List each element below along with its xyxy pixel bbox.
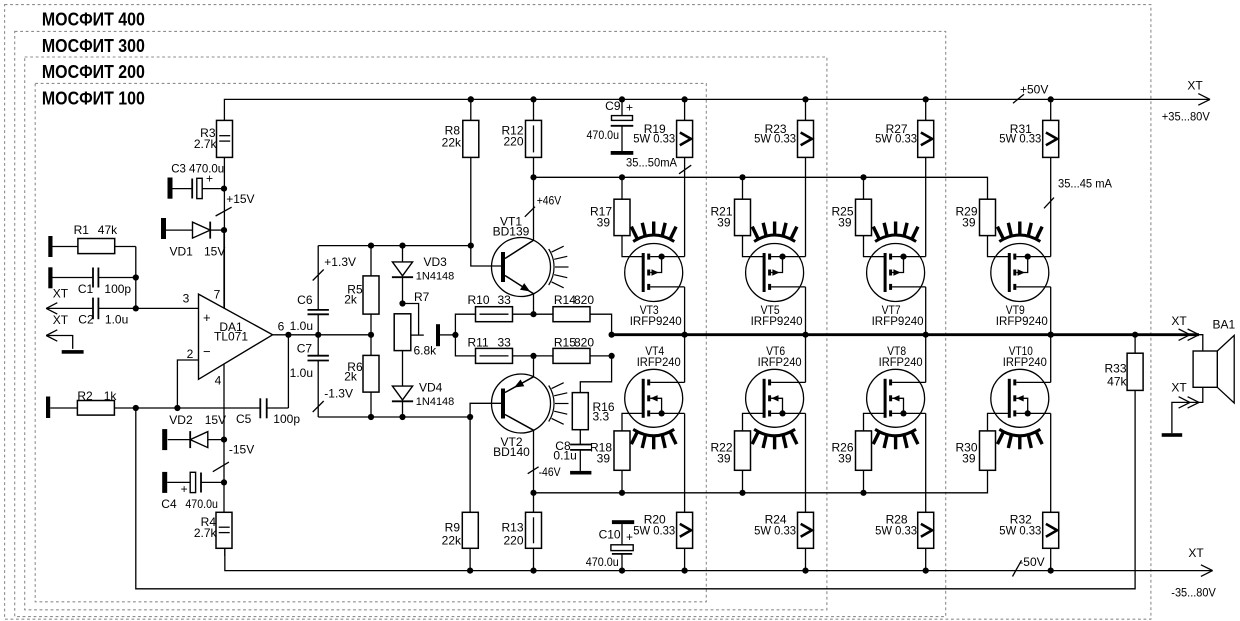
resistor R31 5W 0.33 (999, 99, 1058, 157)
resistor R18 39 (590, 431, 630, 470)
wire gate VT8 (864, 413, 886, 431)
svg-text:470.0u: 470.0u (587, 128, 620, 142)
junction C1 node (133, 274, 139, 280)
capacitor C9 (587, 99, 634, 151)
connector XT shield arrow (46, 330, 57, 341)
junction VT9 bus (1048, 332, 1054, 338)
zener VD1 (166, 222, 225, 259)
net +50V arrow XT (1198, 94, 1210, 106)
ground VD1 (161, 218, 166, 239)
junction R2 feedback node (133, 405, 139, 411)
junction R22 bus (739, 490, 745, 496)
diode VD4 (392, 381, 454, 418)
wire R27 to VT7 source (925, 157, 927, 256)
svg-text:1.0u: 1.0u (290, 366, 313, 380)
resistor R1 (53, 223, 136, 254)
resistor R15 (553, 335, 594, 363)
label XT shield (53, 313, 69, 327)
resistor R13 (501, 512, 541, 570)
svg-text:220: 220 (503, 534, 523, 548)
resistor R22 39 (710, 431, 750, 470)
slash 35...50mA (679, 165, 691, 174)
label -46V (539, 465, 561, 479)
svg-text:TL071: TL071 (214, 330, 248, 344)
svg-text:-50V: -50V (1019, 555, 1044, 569)
junction VT7 bus (923, 332, 929, 338)
MOSFET VT7 IRFP9240 (867, 222, 926, 329)
label -1.3V (324, 387, 353, 401)
wire pin2 (177, 360, 198, 408)
svg-text:470.0u: 470.0u (185, 497, 218, 511)
wire speaker return (1172, 387, 1203, 433)
resistor R2 (50, 389, 260, 415)
pin 6 (278, 320, 285, 334)
svg-text:C4: C4 (161, 497, 177, 511)
svg-text:+: + (626, 101, 633, 115)
svg-text:6.8k: 6.8k (414, 344, 438, 358)
transistor VT2 (492, 374, 569, 459)
resistor R26 39 (831, 431, 871, 470)
svg-text:VD1: VD1 (170, 245, 194, 259)
svg-text:39: 39 (962, 216, 976, 230)
slash 35...45mA (1044, 198, 1054, 209)
wire VD2 to C4 to R4 (223, 440, 225, 513)
junction R17 bus (619, 174, 625, 180)
svg-text:3: 3 (183, 292, 190, 306)
slash -46V (528, 467, 539, 474)
wire R11-R15 (513, 355, 554, 357)
svg-text:220: 220 (503, 135, 523, 149)
wire bus to R17 (621, 177, 623, 199)
svg-text:C1: C1 (78, 282, 94, 296)
resistor R4 (194, 512, 232, 548)
junction R15 node (609, 353, 615, 359)
label +35...80V (1162, 110, 1210, 124)
diode VD3 (392, 246, 454, 304)
wire zobel (580, 356, 611, 393)
capacitor C1 (53, 268, 136, 297)
junction drive node (452, 332, 458, 338)
svg-text:XT: XT (53, 287, 69, 301)
svg-text:C3 470.0u: C3 470.0u (171, 162, 224, 176)
wire VT10 drain to bus (1050, 335, 1052, 383)
wire VT8 drain to bus (925, 335, 927, 383)
resistor R19 5W 0.33 (633, 99, 692, 157)
junction R32 rail (1048, 568, 1054, 574)
svg-text:5W 0.33: 5W 0.33 (754, 524, 796, 538)
svg-text:100p: 100p (273, 412, 300, 426)
svg-text:C10: C10 (599, 528, 621, 542)
wire R10-R14 (513, 313, 554, 315)
svg-text:1k: 1k (104, 389, 118, 403)
svg-text:39: 39 (717, 452, 731, 466)
junction VT9 drain bus (1048, 332, 1054, 338)
junction C6-C7 node (315, 332, 321, 338)
svg-text:1N4148: 1N4148 (416, 396, 455, 408)
svg-text:6: 6 (278, 320, 285, 334)
svg-text:2k: 2k (344, 370, 358, 384)
wire VT3 drain to bus (684, 287, 686, 335)
resistor R17 39 (590, 199, 630, 235)
svg-text:VD3: VD3 (424, 255, 448, 269)
ground C9 (611, 151, 634, 155)
connector XT output (1179, 329, 1199, 340)
wire output bus (612, 333, 1199, 336)
capacitor C4 (161, 472, 224, 511)
connector pin C1 (48, 267, 52, 288)
svg-text:3.3: 3.3 (593, 409, 610, 423)
resistor R5 (344, 246, 379, 315)
resistor R29 39 (955, 199, 995, 235)
wire R5 to mid (370, 314, 372, 335)
wire R4 to -50V rail (224, 548, 226, 556)
label XT speaker return (1171, 381, 1187, 395)
svg-text:22k: 22k (442, 534, 462, 548)
svg-text:+46V: +46V (537, 194, 562, 208)
wire C6 to mid (317, 314, 319, 335)
connector pin drive (436, 324, 440, 346)
wire VT6 drain to bus (805, 335, 807, 383)
wire C5 to output (287, 335, 289, 408)
connector pin R2 (46, 397, 50, 419)
wire R17 to gate (622, 236, 643, 257)
svg-text:+: + (181, 482, 188, 496)
wire VT1 collector (533, 177, 535, 240)
pin 3 (183, 292, 190, 306)
wire VT2 collector (533, 430, 535, 512)
svg-text:2k: 2k (344, 292, 358, 306)
trimmer R7 (394, 290, 437, 358)
wire R26 to bus (863, 470, 865, 493)
slash -15V (213, 462, 229, 472)
svg-text:39: 39 (838, 452, 852, 466)
wire VT7 drain to bus (925, 287, 927, 335)
junction VD3 top (399, 243, 405, 249)
label -50V (1019, 555, 1044, 569)
resistor R23 5W 0.33 (754, 99, 813, 157)
wire VT9 drain to bus (1050, 287, 1052, 335)
junction VD1 node (221, 227, 227, 233)
net -50V arrow XT (1201, 565, 1213, 577)
resistor R3 (194, 120, 233, 157)
junction gate bus start (530, 490, 536, 496)
svg-text:IRFP240: IRFP240 (758, 355, 802, 369)
svg-text:+: + (203, 310, 211, 325)
svg-text:R11: R11 (468, 335, 489, 349)
wire R19 to VT3 source (684, 157, 686, 256)
net +50V slash (1013, 94, 1024, 103)
svg-text:XT: XT (1171, 314, 1187, 328)
wire R6 to -1.3V (370, 392, 372, 417)
wire VT4 source to R20 (684, 413, 686, 512)
capacitor C7 (290, 335, 329, 380)
wire VT2 base (470, 403, 503, 417)
wire feedback net (136, 390, 1135, 588)
svg-text:C7: C7 (297, 341, 313, 355)
label -35...80V (1171, 586, 1216, 600)
wire bus to R25 (863, 177, 865, 199)
junction R19 rail (682, 96, 688, 102)
svg-text:МОСФИТ 400: МОСФИТ 400 (42, 9, 145, 30)
svg-text:39: 39 (597, 452, 611, 466)
wire R7 to VD4 (402, 351, 404, 387)
svg-text:35...50mA: 35...50mA (626, 158, 677, 170)
wire R3 to +15V node (223, 157, 225, 308)
junction R13 rail (530, 568, 536, 574)
svg-text:XT: XT (1171, 381, 1187, 395)
svg-text:XT: XT (1188, 546, 1204, 560)
svg-text:+: + (626, 530, 633, 544)
wire gate VT4 (622, 413, 643, 431)
resistor R21 39 (710, 199, 750, 235)
frame МОСФИТ 300 (15, 31, 946, 616)
svg-text:BD140: BD140 (493, 445, 530, 459)
svg-text:R15: R15 (554, 335, 576, 349)
junction VD2 node (221, 437, 227, 443)
junction inverting node (174, 405, 180, 411)
svg-text:R7: R7 (414, 290, 430, 304)
svg-text:+35...80V: +35...80V (1162, 110, 1210, 124)
junction R21 bus (739, 174, 745, 180)
wire pin7 (223, 230, 225, 308)
junction C3 node (221, 186, 227, 192)
resistor R30 39 (955, 431, 995, 470)
wire bus to speaker (1199, 335, 1203, 351)
svg-text:C5: C5 (236, 412, 252, 426)
svg-text:IRFP240: IRFP240 (1003, 355, 1047, 369)
label XT -rail (1188, 546, 1204, 560)
resistor R12 (501, 99, 541, 157)
junction output node (285, 332, 291, 338)
svg-text:-15V: -15V (229, 443, 254, 457)
svg-text:5W 0.33: 5W 0.33 (999, 132, 1041, 146)
slash +15V (216, 207, 232, 216)
svg-text:R13: R13 (501, 521, 523, 535)
ground VD2 (162, 429, 167, 450)
label +46V (537, 194, 562, 208)
junction C10 rail (619, 568, 625, 574)
resistor R8 (442, 99, 479, 245)
transistor VT1 (492, 215, 569, 297)
wire pin4 (223, 364, 225, 439)
svg-text:2.7k: 2.7k (194, 526, 218, 540)
svg-text:820: 820 (574, 293, 594, 307)
connector XT speaker return (1179, 397, 1199, 408)
wire VT8 source to R28 (925, 413, 927, 512)
junction R5-R6 node (368, 332, 374, 338)
svg-text:C2: C2 (78, 312, 94, 326)
junction R23 rail (802, 96, 808, 102)
svg-text:XT: XT (1187, 79, 1203, 93)
wire pin to node (440, 334, 455, 336)
capacitor C6 (290, 293, 329, 333)
wire VT10 source to R32 (1050, 413, 1052, 512)
svg-text:7: 7 (214, 288, 221, 302)
wire R23 to VT5 source (805, 157, 807, 256)
junction VT3 bus (682, 332, 688, 338)
svg-text:+15V: +15V (226, 192, 254, 206)
svg-text:5W 0.33: 5W 0.33 (633, 524, 675, 538)
svg-text:1.0u: 1.0u (105, 312, 128, 326)
svg-text:+50V: +50V (1020, 83, 1048, 97)
svg-text:1.0u: 1.0u (290, 319, 313, 333)
MOSFET VT6 IRFP240 (746, 344, 806, 449)
svg-text:R1: R1 (74, 223, 90, 237)
wire gate bus -46V (534, 470, 988, 493)
junction bus start (609, 332, 615, 338)
svg-text:VD4: VD4 (419, 381, 443, 395)
svg-text:39: 39 (717, 216, 731, 230)
op-amp DA1 (199, 294, 273, 379)
junction bias bus start (530, 174, 536, 180)
junction R8 column rail (468, 96, 474, 102)
svg-text:−: − (203, 344, 211, 359)
pin 7 (214, 288, 221, 302)
svg-text:+1.3V: +1.3V (324, 255, 356, 269)
svg-text:R2: R2 (77, 389, 93, 403)
svg-text:-46V: -46V (539, 465, 561, 479)
resistor R10 (468, 293, 513, 322)
svg-text:33: 33 (498, 335, 512, 349)
junction R6 bottom (368, 414, 374, 420)
capacitor C5 (236, 398, 300, 426)
svg-text:VD2: VD2 (169, 413, 193, 427)
svg-text:IRFP9240: IRFP9240 (751, 314, 803, 328)
svg-text:39: 39 (962, 452, 976, 466)
svg-text:R33: R33 (1104, 362, 1126, 376)
junction R24 rail (802, 568, 808, 574)
svg-text:5W 0.33: 5W 0.33 (633, 132, 675, 146)
resistor R9 (442, 417, 479, 571)
junction VT5 bus (802, 332, 808, 338)
svg-text:820: 820 (574, 335, 594, 349)
net -50V rail wire (225, 548, 1213, 570)
capacitor C3 (171, 162, 224, 199)
zener VD2 (168, 413, 226, 448)
wire VT1 emitter (533, 294, 535, 315)
junction R31 rail (1048, 96, 1054, 102)
MOSFET VT4 IRFP240 (625, 344, 685, 449)
svg-text:2.7k: 2.7k (194, 137, 218, 151)
wire VT2 emitter (533, 356, 535, 377)
svg-text:100p: 100p (104, 282, 131, 296)
svg-text:5W 0.33: 5W 0.33 (875, 524, 917, 538)
wire R25 to gate (864, 236, 886, 257)
svg-text:IRFP240: IRFP240 (637, 355, 681, 369)
connector pin R1 (48, 236, 52, 257)
label +1.3V (324, 255, 356, 269)
label XT output (1171, 314, 1187, 328)
wire VT4 drain to bus (684, 335, 686, 383)
svg-text:35...45 mA: 35...45 mA (1058, 179, 1112, 191)
MOSFET VT3 IRFP9240 (625, 222, 685, 329)
connector XT input arrow (46, 303, 57, 314)
wire bias bus +46V (534, 177, 988, 199)
wire bus to R21 (742, 177, 744, 199)
junction R7 wiper node (399, 300, 405, 306)
wire C7 to -1.3V net (317, 361, 319, 418)
wire -1.3V net (318, 416, 470, 418)
wire R14 right (590, 314, 612, 335)
ground C10 (612, 520, 634, 524)
wire output pin6 (273, 334, 371, 336)
resistor R32 5W 0.33 (999, 512, 1058, 570)
junction R33 bus (1132, 332, 1138, 338)
svg-text:-1.3V: -1.3V (324, 387, 353, 401)
wire gate VT6 (743, 413, 765, 431)
label XT +rail (1187, 79, 1203, 93)
svg-text:C6: C6 (297, 293, 313, 307)
wire R21 to gate (743, 236, 765, 257)
svg-text:R14: R14 (554, 293, 576, 307)
junction R5 top (368, 243, 374, 249)
slash +1.3V (313, 270, 324, 281)
label +50V (1020, 83, 1048, 97)
svg-text:1N4148: 1N4148 (416, 271, 455, 283)
svg-text:IRFP9240: IRFP9240 (630, 314, 682, 328)
svg-text:МОСФИТ 300: МОСФИТ 300 (42, 35, 145, 56)
pin 4 (215, 374, 222, 388)
net -50V slash (1013, 560, 1022, 576)
svg-text:МОСФИТ 200: МОСФИТ 200 (42, 61, 145, 82)
junction VD4 bottom (399, 414, 405, 420)
label 35...50mA (626, 158, 677, 170)
svg-text:0.1u: 0.1u (553, 448, 576, 462)
wire gate VT10 (988, 413, 1010, 431)
junction R28 rail (923, 568, 929, 574)
ground input shield (62, 350, 84, 354)
svg-text:IRFP9240: IRFP9240 (996, 314, 1048, 328)
svg-text:МОСФИТ 100: МОСФИТ 100 (42, 87, 145, 108)
pin 2 (187, 347, 194, 361)
svg-text:-35...80V: -35...80V (1171, 586, 1216, 600)
junction VT1 emitter node (530, 311, 536, 317)
junction C4 node (221, 479, 227, 485)
junction R12 rail (530, 96, 536, 102)
resistor R6 (344, 335, 379, 392)
label XT input (53, 287, 69, 301)
svg-text:5W 0.33: 5W 0.33 (999, 524, 1041, 538)
svg-text:IRFP240: IRFP240 (879, 355, 923, 369)
label +15V (226, 192, 254, 206)
slash -1.3V (313, 401, 324, 412)
svg-text:470.0u: 470.0u (586, 555, 619, 569)
ground C8 (570, 471, 591, 475)
ground speaker (1162, 433, 1183, 437)
svg-text:39: 39 (597, 216, 611, 230)
wire R12 to bias bus (533, 157, 535, 177)
svg-text:22k: 22k (442, 136, 462, 150)
resistor R28 5W 0.33 (875, 512, 934, 570)
svg-text:4: 4 (215, 374, 222, 388)
frame МОСФИТ 100 (35, 83, 706, 601)
capacitor C8 (553, 430, 591, 471)
junction R27 rail (923, 96, 929, 102)
resistor R24 5W 0.33 (754, 512, 813, 570)
wire input line (46, 307, 198, 309)
junction C9 rail (619, 96, 625, 102)
capacitor C2 (78, 298, 128, 327)
MOSFET VT9 IRFP9240 (991, 222, 1051, 329)
wire shield (46, 336, 72, 349)
wire R29 to gate (988, 236, 1010, 257)
svg-text:39: 39 (838, 216, 852, 230)
junction R26 bus (860, 490, 866, 496)
net +50V rail wire (224, 99, 1210, 120)
wire R1-C1-input node (135, 247, 137, 309)
svg-text:C9: C9 (605, 99, 621, 113)
slash +46V (525, 207, 535, 217)
